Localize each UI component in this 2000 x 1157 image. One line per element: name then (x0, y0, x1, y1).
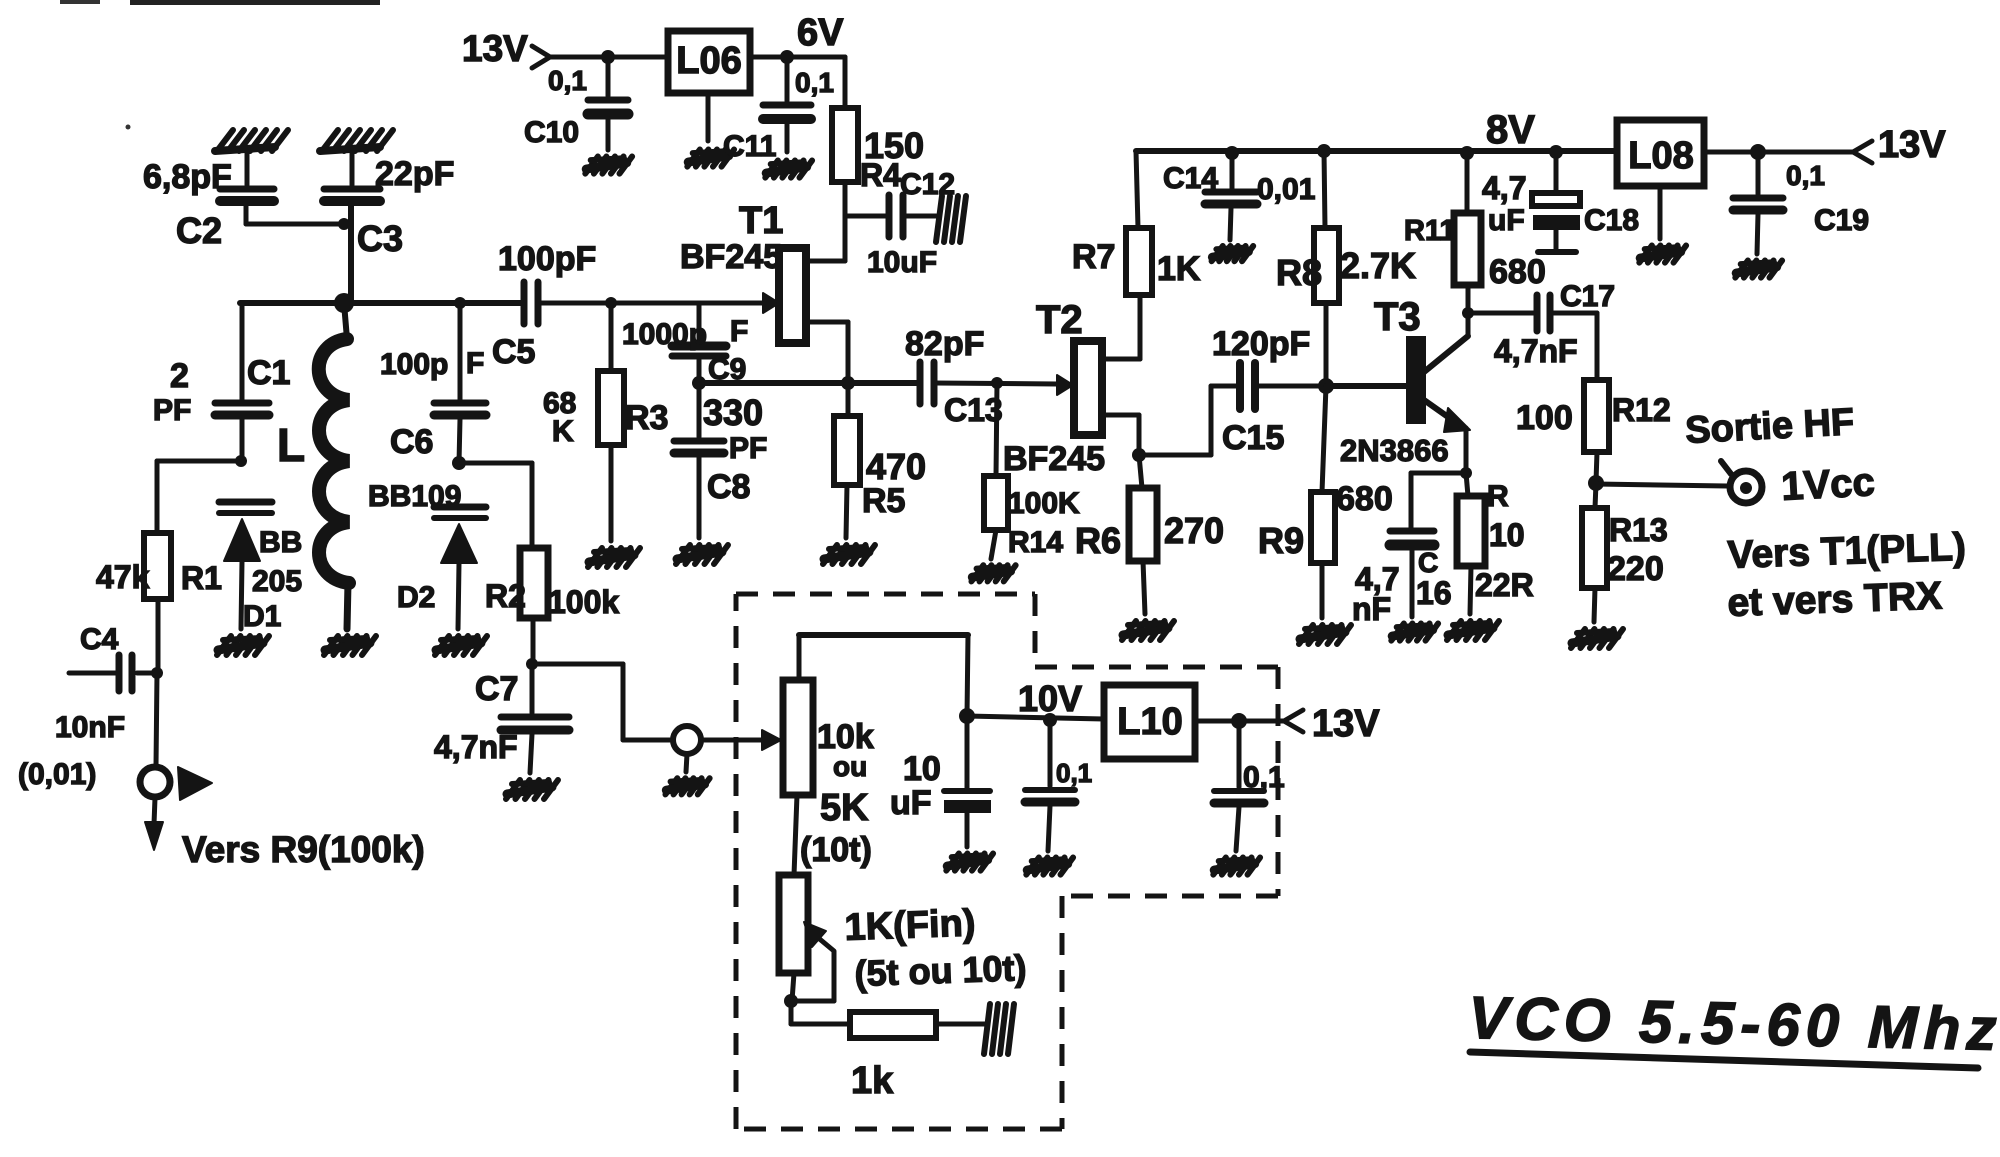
svg-text:0,1: 0,1 (1786, 160, 1825, 191)
svg-text:680: 680 (1336, 480, 1393, 518)
svg-text:C3: C3 (357, 218, 403, 259)
svg-text:T1: T1 (739, 200, 783, 242)
svg-text:16: 16 (1416, 575, 1452, 611)
svg-text:BF245: BF245 (680, 238, 782, 276)
svg-text:(5t ou 10t): (5t ou 10t) (854, 947, 1027, 994)
svg-text:100K: 100K (1008, 487, 1080, 520)
svg-text:13V: 13V (462, 28, 528, 69)
svg-text:et vers TRX: et vers TRX (1727, 575, 1943, 625)
svg-text:0,1: 0,1 (795, 67, 834, 98)
svg-text:Vers T1(PLL): Vers T1(PLL) (1727, 526, 1967, 577)
svg-text:0,1: 0,1 (548, 65, 587, 96)
svg-text:F: F (730, 315, 748, 348)
svg-text:680: 680 (1489, 253, 1546, 291)
svg-text:13V: 13V (1878, 124, 1946, 166)
svg-text:C19: C19 (1814, 204, 1869, 237)
svg-text:6V: 6V (797, 12, 844, 54)
svg-text:R14: R14 (1008, 526, 1063, 559)
svg-text:100pF: 100pF (498, 240, 596, 278)
svg-text:22pF: 22pF (375, 155, 454, 193)
svg-text:T2: T2 (1036, 298, 1083, 342)
svg-text:C8: C8 (707, 468, 750, 506)
svg-text:6,8pF: 6,8pF (143, 158, 232, 196)
svg-text:10uF: 10uF (867, 246, 937, 279)
svg-text:0,1: 0,1 (1056, 758, 1092, 788)
svg-text:(10t): (10t) (800, 831, 872, 869)
svg-text:10: 10 (903, 750, 941, 788)
svg-text:C7: C7 (475, 670, 518, 708)
svg-text:R4: R4 (860, 157, 901, 193)
svg-text:2N3866: 2N3866 (1340, 433, 1449, 468)
svg-text:82pF: 82pF (905, 325, 984, 363)
svg-text:R7: R7 (1072, 238, 1115, 276)
svg-text:L: L (277, 419, 305, 471)
svg-text:2.7K: 2.7K (1340, 245, 1416, 286)
svg-text:47k: 47k (96, 559, 150, 595)
svg-text:nF: nF (1352, 591, 1391, 627)
svg-text:C4: C4 (80, 623, 119, 656)
svg-text:0,01: 0,01 (1257, 173, 1315, 206)
svg-text:R12: R12 (1612, 392, 1671, 428)
svg-text:K: K (552, 415, 574, 448)
svg-text:PF: PF (729, 432, 767, 465)
svg-text:10nF: 10nF (55, 711, 125, 744)
svg-text:5K: 5K (820, 787, 869, 829)
svg-text:C5: C5 (492, 333, 535, 371)
svg-text:T3: T3 (1374, 295, 1421, 339)
svg-text:2: 2 (170, 357, 189, 395)
svg-text:100p: 100p (380, 348, 448, 381)
svg-text:0,1: 0,1 (1243, 761, 1285, 794)
svg-text:Vers R9(100k): Vers R9(100k) (182, 829, 425, 870)
svg-text:L08: L08 (1628, 135, 1693, 177)
svg-text:R: R (1487, 480, 1509, 513)
svg-text:C12: C12 (900, 168, 955, 201)
svg-text:C2: C2 (176, 210, 222, 251)
svg-text:8V: 8V (1486, 108, 1535, 152)
svg-text:330: 330 (703, 392, 763, 433)
svg-text:(0,01): (0,01) (18, 758, 96, 791)
svg-text:1Vcc: 1Vcc (1780, 460, 1876, 509)
svg-text:D1: D1 (243, 600, 281, 633)
svg-text:1K(Fin): 1K(Fin) (844, 902, 976, 949)
svg-text:13V: 13V (1312, 703, 1380, 745)
svg-text:C15: C15 (1222, 419, 1284, 457)
svg-text:R3: R3 (625, 399, 668, 437)
svg-text:BF245: BF245 (1003, 440, 1105, 478)
svg-text:R8: R8 (1276, 252, 1322, 293)
svg-text:C6: C6 (390, 423, 433, 461)
svg-text:4,7nF: 4,7nF (434, 729, 518, 765)
svg-text:120pF: 120pF (1212, 325, 1310, 363)
svg-text:R6: R6 (1075, 520, 1121, 561)
svg-text:C: C (1418, 547, 1438, 578)
svg-text:L06: L06 (676, 40, 741, 82)
svg-text:L10: L10 (1117, 701, 1182, 743)
svg-text:R9: R9 (1258, 520, 1304, 561)
svg-text:C17: C17 (1560, 280, 1615, 313)
svg-text:R5: R5 (862, 482, 905, 520)
svg-text:F: F (466, 347, 484, 380)
svg-text:C18: C18 (1584, 204, 1639, 237)
svg-text:C13: C13 (944, 392, 1003, 428)
svg-text:10V: 10V (1018, 678, 1082, 719)
svg-text:uF: uF (890, 784, 932, 822)
svg-text:1k: 1k (851, 1060, 894, 1102)
svg-text:100k: 100k (548, 584, 619, 620)
svg-text:100: 100 (1516, 399, 1573, 437)
svg-text:C1: C1 (247, 354, 290, 392)
svg-text:1000p: 1000p (622, 318, 707, 351)
svg-text:uF: uF (1488, 204, 1525, 237)
svg-text:220: 220 (1607, 550, 1664, 588)
svg-text:1K: 1K (1157, 250, 1201, 288)
svg-text:ou: ou (833, 751, 867, 782)
svg-text:C10: C10 (524, 116, 579, 149)
svg-text:4,7nF: 4,7nF (1494, 333, 1578, 369)
svg-text:470: 470 (866, 446, 926, 487)
svg-text:22R: 22R (1475, 567, 1534, 603)
svg-text:R1: R1 (181, 560, 222, 596)
svg-text:10: 10 (1489, 517, 1525, 553)
svg-text:Sortie HF: Sortie HF (1684, 401, 1855, 452)
svg-text:C14: C14 (1163, 162, 1218, 195)
svg-text:R11: R11 (1404, 215, 1456, 247)
svg-text:R13: R13 (1609, 512, 1668, 548)
svg-text:BB: BB (259, 526, 302, 559)
svg-text:D2: D2 (397, 581, 435, 614)
svg-text:4,7: 4,7 (1482, 170, 1526, 206)
svg-text:C11: C11 (723, 130, 776, 163)
svg-text:205: 205 (252, 565, 302, 598)
svg-text:270: 270 (1164, 510, 1224, 551)
svg-text:PF: PF (153, 394, 191, 427)
svg-text:R2: R2 (485, 578, 526, 614)
